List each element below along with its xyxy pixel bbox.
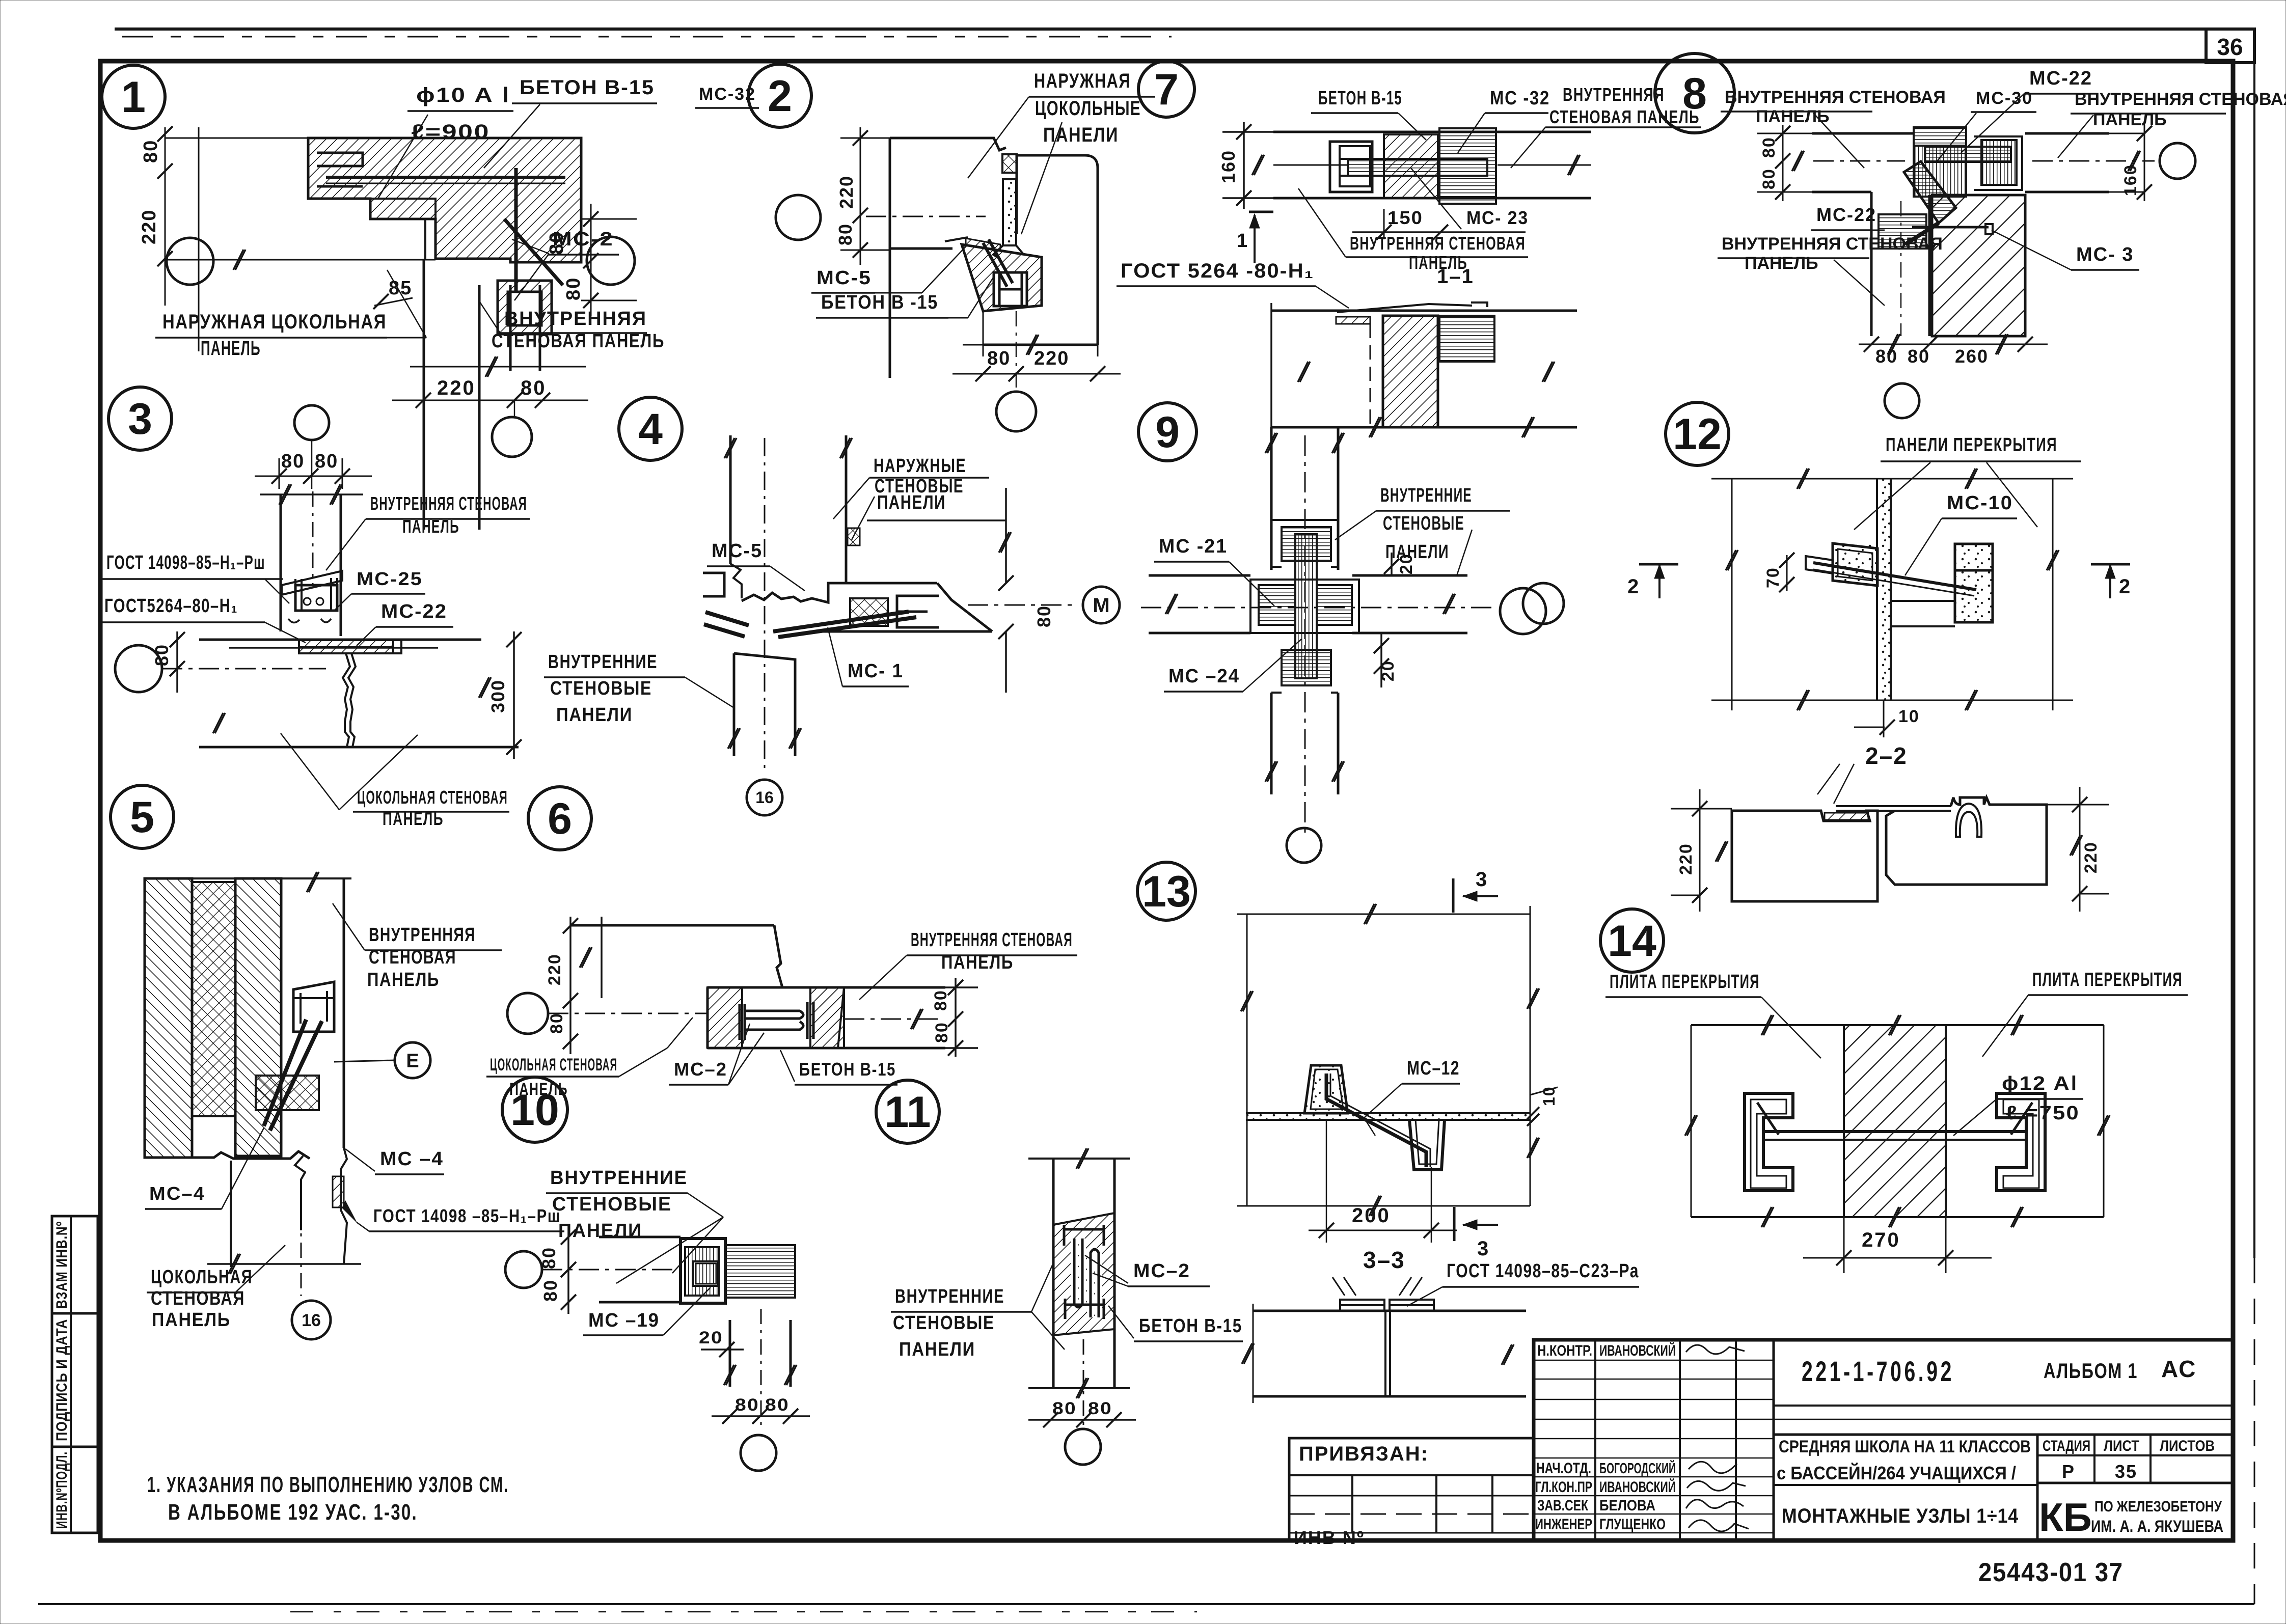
- svg-text:БОГОРОДСКИЙ: БОГОРОДСКИЙ: [1599, 1460, 1676, 1477]
- svg-text:ВНУТРЕННИЕ: ВНУТРЕННИЕ: [550, 1167, 688, 1189]
- detail 1: anchor pin vertical: [514, 168, 518, 318]
- svg-text:СТЕНОВЫЕ: СТЕНОВЫЕ: [1383, 513, 1464, 534]
- svg-text:ПАНЕЛЬ: ПАНЕЛЬ: [2093, 110, 2167, 129]
- detail 13: U channel: [1409, 1120, 1445, 1170]
- svg-text:ПРИВЯЗАН:: ПРИВЯЗАН:: [1299, 1443, 1429, 1465]
- svg-text:3–3: 3–3: [1363, 1247, 1405, 1273]
- detail 4: joint zigzag profile: [742, 583, 849, 602]
- detail 1: hatched floor slab: [308, 138, 581, 262]
- svg-text:ПАНЕЛЬ: ПАНЕЛЬ: [152, 1309, 231, 1331]
- svg-text:ЦОКОЛЬНАЯ СТЕНОВАЯ: ЦОКОЛЬНАЯ СТЕНОВАЯ: [357, 787, 508, 808]
- detail 8: MC-22 lower connector: [1879, 214, 1926, 249]
- detail 9: axes: [1141, 607, 1498, 609]
- svg-text:1: 1: [1237, 230, 1248, 252]
- detail 11 circle: [876, 1080, 939, 1143]
- svg-text:80: 80: [151, 644, 172, 666]
- detail 11: wall column: [1028, 1158, 1130, 1160]
- svg-text:80: 80: [1759, 136, 1779, 158]
- detail 7: section 1-1 recess plate: [1336, 317, 1370, 324]
- svg-text:МС- 23: МС- 23: [1466, 207, 1529, 228]
- detail 7: left dim 160: [1243, 122, 1245, 209]
- detail 6 circle: [528, 787, 591, 850]
- svg-text:МС –19: МС –19: [588, 1310, 660, 1331]
- svg-text:80: 80: [140, 140, 161, 163]
- svg-text:ϕ10 А Ⅰ: ϕ10 А Ⅰ: [416, 84, 510, 106]
- svg-text:МС–12: МС–12: [1407, 1058, 1460, 1079]
- svg-text:МС–2: МС–2: [674, 1059, 727, 1080]
- detail 13: dim 10 right: [1530, 1087, 1558, 1095]
- svg-text:ГОСТ 14098–85–С23–Ра: ГОСТ 14098–85–С23–Ра: [1447, 1260, 1639, 1282]
- detail 7: section 1-1 slab top: [1271, 310, 1577, 312]
- detail 12: section 2-2 thin plate: [1836, 805, 1951, 807]
- detail 8: MC-30 lined block top: [1914, 127, 1966, 146]
- detail 13: section mark 3 bottom: [1453, 1207, 1456, 1241]
- svg-text:В АЛЬБОМЕ 192 УАС. 1-30.: В АЛЬБОМЕ 192 УАС. 1-30.: [168, 1500, 418, 1525]
- svg-text:АС: АС: [2161, 1356, 2196, 1382]
- svg-text:БЕТОН В -15: БЕТОН В -15: [821, 292, 938, 313]
- svg-text:80: 80: [987, 348, 1011, 369]
- detail 13: floor slab: [1246, 1112, 1530, 1114]
- detail 4: bubble 16 below: [747, 780, 782, 815]
- svg-text:80: 80: [932, 1022, 951, 1043]
- detail 12: dim 70: [1786, 555, 1788, 591]
- detail 13: dim rectangle: [1237, 914, 1530, 915]
- detail 3: MC-22 plate hatched: [299, 640, 393, 647]
- page outer right border line: [2253, 29, 2255, 1258]
- svg-text:СТЕНОВЫЕ: СТЕНОВЫЕ: [550, 678, 652, 699]
- svg-text:1: 1: [121, 73, 146, 122]
- svg-text:5: 5: [130, 793, 154, 842]
- detail 14: central hatched joint: [1844, 1025, 1946, 1217]
- detail 12: section 2-2 left slab: [1732, 811, 1877, 901]
- detail 8: center vertical lined column: [1914, 146, 1966, 197]
- svg-text:ЛИСТ: ЛИСТ: [2104, 1438, 2139, 1454]
- detail 5: wall bottom jagged edge: [145, 1151, 310, 1159]
- detail 1: tie rod across slab: [326, 176, 565, 179]
- detail 4: insulation at wall top: [848, 528, 860, 545]
- detail 2: bottom dim 80/220: [983, 311, 984, 356]
- svg-text:БЕТОН В-15: БЕТОН В-15: [1318, 88, 1402, 109]
- detail 4 circle: [619, 397, 682, 460]
- detail 2: concrete B-15 block hatched: [962, 244, 1042, 311]
- detail 4: lower wall panel: [734, 653, 795, 756]
- page outer bottom border line: [38, 1603, 2254, 1605]
- svg-text:МС-22: МС-22: [1816, 204, 1876, 225]
- svg-text:ЛИСТОВ: ЛИСТОВ: [2160, 1438, 2215, 1454]
- detail 11: hatched joint region: [1053, 1213, 1114, 1335]
- svg-text:25443-01 37: 25443-01 37: [1978, 1558, 2124, 1587]
- detail 4: weld channel: [897, 596, 939, 627]
- detail 12: section 2-2 leader lines: [1817, 764, 1840, 794]
- detail 12: section marks 2: [1639, 563, 1678, 566]
- detail 12: dim frame: [1731, 479, 1733, 710]
- svg-text:Н.КОНТР.: Н.КОНТР.: [1537, 1342, 1592, 1359]
- detail 9: right wall: [1352, 574, 1467, 577]
- detail 7: section 1-1 bottom: [1271, 426, 1577, 429]
- svg-text:АЛЬБОМ 1: АЛЬБОМ 1: [2044, 1359, 2138, 1383]
- svg-text:7: 7: [1154, 65, 1179, 114]
- svg-text:ИНВ Nº: ИНВ Nº: [1294, 1527, 1365, 1548]
- detail 6: upper basement panel outline: [570, 924, 774, 927]
- svg-text:НАРУЖНЫЕ: НАРУЖНЫЕ: [874, 455, 966, 477]
- detail 8: right vertical-lined block: [1981, 140, 2017, 185]
- svg-text:12: 12: [1673, 410, 1722, 459]
- svg-text:220: 220: [2081, 841, 2101, 873]
- detail 10: bottom dim 80/80: [712, 1415, 810, 1417]
- svg-text:ПАНЕЛЬ: ПАНЕЛЬ: [402, 516, 459, 537]
- svg-text:80: 80: [735, 1395, 759, 1415]
- svg-text:300: 300: [487, 679, 508, 713]
- sheet number box 36: [2206, 29, 2254, 63]
- detail 9: center vertical lined strip: [1295, 534, 1317, 678]
- page outer top border line: [115, 27, 2254, 31]
- detail 1: diagonal tie: [504, 219, 563, 285]
- svg-text:220: 220: [437, 377, 476, 399]
- detail 4: sealant crosshatch: [850, 598, 888, 626]
- svg-text:ГЛУЩЕНКО: ГЛУЩЕНКО: [1599, 1516, 1666, 1533]
- detail 14 circle: [1600, 909, 1664, 972]
- svg-text:НАЧ.ОТД.: НАЧ.ОТД.: [1536, 1460, 1591, 1477]
- detail 6: slab band top/bottom: [707, 986, 945, 989]
- svg-text:80: 80: [547, 1012, 566, 1034]
- svg-text:ИМ. А. А. ЯКУШЕВА: ИМ. А. А. ЯКУШЕВА: [2091, 1517, 2223, 1535]
- svg-text:ПО ЖЕЛЕЗОБЕТОНУ: ПО ЖЕЛЕЗОБЕТОНУ: [2094, 1498, 2222, 1515]
- svg-text:МС–2: МС–2: [1133, 1260, 1190, 1282]
- detail 7: axis line: [1273, 164, 1348, 166]
- detail 8: big hatched block: [1932, 195, 2025, 336]
- svg-text:НАРУЖНАЯ: НАРУЖНАЯ: [1034, 70, 1131, 92]
- svg-text:220: 220: [545, 953, 564, 985]
- detail 12: section 2-2 dims 220: [1699, 789, 1701, 912]
- detail 1: outer basement wall panel: [423, 259, 425, 530]
- svg-text:ГОСТ 5264 -80-Н₁: ГОСТ 5264 -80-Н₁: [1121, 260, 1314, 282]
- detail 5: lower panel columns: [230, 1161, 232, 1267]
- svg-text:ПАНЕЛИ: ПАНЕЛИ: [899, 1339, 975, 1360]
- detail 6: MC-2 horizontal weld loops: [745, 1011, 803, 1030]
- detail 1: bottom axis bubble: [492, 417, 532, 457]
- svg-text:35: 35: [2115, 1461, 2137, 1482]
- svg-text:М: М: [1093, 594, 1109, 617]
- svg-text:СТАДИЯ: СТАДИЯ: [2043, 1438, 2090, 1454]
- detail 5: bubble 16: [292, 1301, 331, 1339]
- svg-text:МС-2: МС-2: [553, 229, 614, 250]
- svg-text:МС- 1: МС- 1: [848, 660, 904, 682]
- detail 12: dim 10 bottom: [1883, 700, 1885, 737]
- svg-text:ГОСТ5264–80–Н₁: ГОСТ5264–80–Н₁: [104, 595, 238, 617]
- detail 9: upper wall column: [1270, 427, 1273, 570]
- detail 4: outer wall panel above: [729, 435, 732, 564]
- svg-text:80: 80: [1033, 605, 1054, 627]
- svg-text:ГОСТ 14098–85–Н₁–Рш: ГОСТ 14098–85–Н₁–Рш: [106, 552, 265, 573]
- detail 1: bottom dim 220/80: [410, 366, 586, 368]
- svg-text:ϕ12 АⅠ: ϕ12 АⅠ: [2002, 1073, 2078, 1094]
- svg-text:80: 80: [1875, 346, 1898, 367]
- svg-text:ВНУТРЕННИЕ: ВНУТРЕННИЕ: [895, 1286, 1004, 1307]
- svg-text:ПАНЕЛИ ПЕРЕКРЫТИЯ: ПАНЕЛИ ПЕРЕКРЫТИЯ: [1886, 434, 2057, 456]
- detail 13: section 3-3 top line: [1253, 1310, 1526, 1312]
- svg-text:МС-30: МС-30: [1976, 89, 2033, 108]
- detail 8: lower-left wall panel: [1870, 192, 1873, 336]
- detail 11: bottom dim 80/80: [1028, 1419, 1136, 1421]
- detail 7 circle: [1138, 61, 1194, 117]
- svg-text:МС-5: МС-5: [712, 540, 763, 562]
- svg-text:Е: Е: [406, 1050, 419, 1071]
- svg-text:14: 14: [1608, 917, 1656, 966]
- detail 10: weld box МС-19: [681, 1238, 725, 1303]
- svg-text:ЦОКОЛЬНЫЕ: ЦОКОЛЬНЫЕ: [1035, 97, 1141, 120]
- svg-text:МС–4: МС–4: [149, 1183, 205, 1204]
- title block: main table frame: [1534, 1340, 2233, 1540]
- detail 1: inner wall panel: [509, 285, 512, 371]
- detail 10: wall strip: [599, 1236, 681, 1238]
- svg-text:220: 220: [836, 175, 857, 209]
- svg-text:ВНУТРЕННЯЯ: ВНУТРЕННЯЯ: [504, 308, 647, 329]
- detail 11: top anchor plate: [1064, 1225, 1104, 1246]
- svg-text:20: 20: [1378, 660, 1398, 681]
- svg-text:ВНУТРЕННИЕ: ВНУТРЕННИЕ: [1380, 485, 1472, 506]
- detail 4: wall left step profile: [730, 564, 742, 598]
- detail 12: wall strip speckled: [1876, 479, 1878, 700]
- detail 5: inner wall panel (white column): [343, 878, 345, 1148]
- svg-text:ИВАНОВСКИЙ: ИВАНОВСКИЙ: [1599, 1342, 1676, 1359]
- detail 1: leader to rod: [378, 115, 428, 199]
- svg-text:ВЗАМ ИНВ.Nº: ВЗАМ ИНВ.Nº: [53, 1221, 70, 1309]
- detail 3: floor double line: [199, 639, 481, 641]
- detail 9: right lined block: [1317, 585, 1352, 625]
- detail 12: section 2-2 MC-22 plate recess: [1825, 813, 1868, 820]
- svg-text:МС-25: МС-25: [357, 568, 423, 589]
- svg-text:СТЕНОВАЯ ПАНЕЛЬ: СТЕНОВАЯ ПАНЕЛЬ: [492, 331, 665, 352]
- detail 13 circle: [1137, 862, 1195, 920]
- detail 5: E bubble: [395, 1042, 430, 1078]
- detail 2: left dim 220/80: [860, 127, 861, 265]
- svg-text:МС –4: МС –4: [380, 1148, 444, 1170]
- detail 7: section 1-1 topping plates: [1337, 302, 1487, 312]
- detail 1: left dim 80/220: [165, 127, 166, 306]
- svg-text:9: 9: [1155, 408, 1180, 457]
- detail 11: centerline: [1083, 1339, 1084, 1426]
- detail 14: right anchor: [1997, 1093, 2045, 1191]
- detail 5: connector anchor box: [293, 982, 334, 1032]
- svg-text:4: 4: [638, 405, 663, 454]
- svg-text:2: 2: [1627, 575, 1640, 598]
- svg-text:150: 150: [1387, 207, 1423, 228]
- detail 4: corner angle with rods (left): [703, 573, 724, 596]
- svg-text:2: 2: [768, 72, 792, 121]
- detail 5: lower panel joint: [295, 1156, 305, 1230]
- svg-text:СТЕНОВАЯ ПАНЕЛЬ: СТЕНОВАЯ ПАНЕЛЬ: [1549, 106, 1700, 127]
- detail 8: MC-3 rod: [1912, 226, 1989, 229]
- svg-text:МС –24: МС –24: [1168, 666, 1240, 687]
- svg-text:2–2: 2–2: [1865, 742, 1908, 769]
- left stamp strip: ИНВ № ПОДЛ: [52, 1447, 98, 1533]
- svg-text:ВНУТРЕННЯЯ СТЕНОВАЯ: ВНУТРЕННЯЯ СТЕНОВАЯ: [1350, 233, 1526, 254]
- detail 8: bottom dim 80/80/260: [1859, 344, 2048, 345]
- detail 9 circle: [1138, 403, 1196, 461]
- detail 3: dim 300: [513, 631, 515, 759]
- svg-text:ИВАНОВСКИЙ: ИВАНОВСКИЙ: [1599, 1478, 1676, 1496]
- detail 13: MC-12 Z-tie: [1326, 1074, 1426, 1167]
- detail 3: top dim 80/80: [255, 476, 372, 477]
- svg-text:НАРУЖНАЯ ЦОКОЛЬНАЯ: НАРУЖНАЯ ЦОКОЛЬНАЯ: [162, 311, 387, 333]
- title block: ПРИВЯЗАН box: [1289, 1438, 1534, 1540]
- detail 2: axis bubble left: [776, 195, 821, 240]
- svg-text:ВНУТРЕННЯЯ СТЕНОВАЯ: ВНУТРЕННЯЯ СТЕНОВАЯ: [1722, 234, 1943, 254]
- detail 3: basement panel joint: [343, 653, 350, 747]
- detail 2: axis dash left: [866, 216, 986, 217]
- detail 13: upstand block: [1304, 1065, 1348, 1113]
- svg-text:ПЛИТА ПЕРЕКРЫТИЯ: ПЛИТА ПЕРЕКРЫТИЯ: [2032, 969, 2183, 990]
- detail 11: bottom anchor plate: [1065, 1299, 1104, 1319]
- detail 2: bottom centerline + bubble: [1016, 311, 1017, 391]
- svg-text:ПАНЕЛЬ: ПАНЕЛЬ: [941, 952, 1014, 973]
- svg-text:260: 260: [1955, 346, 1989, 367]
- detail 11: bottom bubble: [1065, 1429, 1101, 1465]
- detail 10: lower wall columns: [729, 1320, 731, 1387]
- svg-text:270: 270: [1862, 1229, 1900, 1251]
- svg-text:80: 80: [1759, 168, 1779, 189]
- svg-text:85: 85: [389, 278, 412, 299]
- detail 13: section 3-3 bottom line: [1253, 1395, 1526, 1398]
- svg-text:МС -21: МС -21: [1159, 536, 1228, 557]
- detail 2: MC-5 tie rod: [989, 239, 1013, 283]
- detail 12: axis bubble left: [1523, 583, 1564, 624]
- detail 6: right dims 80/80: [955, 978, 957, 1057]
- svg-text:ПАНЕЛЬ: ПАНЕЛЬ: [367, 969, 440, 990]
- svg-text:10: 10: [1540, 1086, 1558, 1106]
- svg-text:36: 36: [2217, 34, 2243, 60]
- title block: project number box: [1774, 1405, 2233, 1407]
- svg-text:с БАССЕЙН/264 УЧАЩИХСЯ /: с БАССЕЙН/264 УЧАЩИХСЯ /: [1777, 1462, 2016, 1483]
- title block: left columns: [1594, 1340, 1596, 1540]
- svg-text:220: 220: [1676, 843, 1696, 875]
- detail 5: insulation crosshatch layer: [192, 882, 235, 1116]
- svg-text:80: 80: [1908, 346, 1930, 367]
- svg-text:БЕТОН В-15: БЕТОН В-15: [520, 76, 655, 99]
- svg-text:3: 3: [1476, 868, 1488, 891]
- detail 7: hatched wall block: [1384, 134, 1438, 198]
- detail 12: floor lines: [1891, 600, 1955, 602]
- svg-text:ПЛИТА ПЕРЕКРЫТИЯ: ПЛИТА ПЕРЕКРЫТИЯ: [1610, 971, 1760, 993]
- svg-text:1. УКАЗАНИЯ ПО ВЫПОЛНЕНИЮ УЗ: 1. УКАЗАНИЯ ПО ВЫПОЛНЕНИЮ УЗЛОВ СМ.: [147, 1472, 509, 1497]
- svg-text:16: 16: [755, 788, 774, 807]
- detail 8 circle: [1655, 53, 1734, 133]
- detail 7: lined rod bar: [1348, 159, 1487, 176]
- detail 9: lower wall column: [1270, 693, 1273, 794]
- svg-text:МС -32: МС -32: [1490, 88, 1550, 109]
- detail 7: MC-32 lined block: [1439, 128, 1496, 204]
- svg-text:80: 80: [765, 1395, 790, 1415]
- svg-text:ВНУТРЕННЯЯ: ВНУТРЕННЯЯ: [369, 924, 476, 946]
- detail 5: sealant block: [256, 1076, 319, 1110]
- left stamp strip: ПОДПИСЬ И ДАТА: [52, 1313, 98, 1447]
- detail 9: left lined block: [1259, 585, 1295, 625]
- detail 3 circle: [108, 387, 172, 450]
- svg-text:ПАНЕЛИ: ПАНЕЛИ: [558, 1220, 642, 1242]
- svg-text:3: 3: [128, 395, 152, 444]
- svg-text:МС-22: МС-22: [2029, 68, 2092, 89]
- detail 2: right outer panel: [1017, 155, 1098, 345]
- svg-text:Р: Р: [2062, 1461, 2075, 1482]
- detail 10 circle: [502, 1077, 567, 1142]
- detail 14: tie rod: [1763, 1130, 2026, 1133]
- svg-text:МС-10: МС-10: [1947, 492, 2013, 514]
- detail 2: left outer basement panel: [890, 138, 1006, 150]
- detail 2: joint speckled strip: [1003, 179, 1016, 245]
- detail 8: top walls: [1812, 132, 1914, 135]
- svg-text:СТЕНОВАЯ: СТЕНОВАЯ: [369, 947, 456, 968]
- detail 6: left dims 220/80 + bubble: [507, 993, 548, 1034]
- svg-text:БЕЛОВА: БЕЛОВА: [1599, 1497, 1655, 1514]
- svg-text:2: 2: [2119, 575, 2131, 598]
- detail 9: left wall: [1149, 574, 1250, 577]
- detail 7: weld box: [1330, 142, 1372, 192]
- detail 9: block frames: [1250, 580, 1359, 633]
- svg-text:ВНУТРЕННИЕ: ВНУТРЕННИЕ: [548, 651, 658, 673]
- detail 3: weld unit at column base: [282, 571, 342, 595]
- detail 2: thin hatched plate: [966, 238, 1000, 251]
- detail 8: MC-22 lined bar: [1925, 147, 2011, 162]
- detail 1: axis bubble right: [587, 237, 635, 285]
- svg-text:МС-5: МС-5: [817, 267, 872, 289]
- detail 7: dim 150: [1352, 231, 1462, 233]
- detail 7: section 1-1 hatched wall: [1383, 316, 1438, 427]
- detail 2: joint sealant crosshatch: [1002, 154, 1017, 173]
- detail 5: outer wall hatched layer: [145, 878, 192, 1158]
- detail 13: section mark 3 top: [1452, 878, 1455, 913]
- detail 13: section 3-3 stem: [1384, 1311, 1386, 1396]
- svg-text:80: 80: [281, 451, 305, 472]
- svg-text:СТЕНОВЫЕ: СТЕНОВЫЕ: [893, 1312, 995, 1334]
- svg-text:БЕТОН В-15: БЕТОН В-15: [1139, 1315, 1242, 1337]
- svg-text:ПАНЕЛЬ: ПАНЕЛЬ: [1756, 107, 1830, 126]
- detail 1: embedded angle left: [317, 153, 363, 186]
- detail 3: inner wall panel columns: [280, 494, 282, 631]
- svg-text:80: 80: [563, 277, 584, 300]
- svg-text:КБ: КБ: [2039, 1495, 2092, 1539]
- svg-text:МОНТАЖНЫЕ УЗЛЫ 1÷14: МОНТАЖНЫЕ УЗЛЫ 1÷14: [1782, 1505, 2019, 1527]
- svg-text:8: 8: [1682, 69, 1707, 118]
- svg-text:10: 10: [510, 1086, 559, 1135]
- svg-text:20: 20: [699, 1328, 723, 1347]
- svg-text:10: 10: [1898, 707, 1920, 726]
- svg-text:ПАНЕЛИ: ПАНЕЛИ: [877, 492, 946, 513]
- detail 5: ГОСТ weld sliver: [333, 1176, 344, 1207]
- svg-text:БЕТОН В-15: БЕТОН В-15: [799, 1059, 896, 1080]
- detail 9: lower lined block MC-24: [1282, 650, 1331, 685]
- svg-text:13: 13: [1142, 867, 1191, 916]
- svg-text:ГОСТ 14098 –85–Н₁–Рш: ГОСТ 14098 –85–Н₁–Рш: [373, 1205, 561, 1226]
- detail 10: left dim 80/80: [567, 1225, 569, 1314]
- detail 8: bottom axis bubble: [1885, 383, 1919, 418]
- svg-text:СТЕНОВАЯ: СТЕНОВАЯ: [151, 1288, 245, 1309]
- svg-text:80: 80: [1052, 1399, 1077, 1418]
- svg-text:МС- 3: МС- 3: [2076, 244, 2134, 265]
- svg-text:СРЕДНЯЯ ШКОЛА НА 11 КЛАССОВ: СРЕДНЯЯ ШКОЛА НА 11 КЛАССОВ: [1779, 1437, 2031, 1456]
- svg-text:220: 220: [1034, 348, 1069, 369]
- svg-text:ПАНЕЛЬ: ПАНЕЛЬ: [201, 337, 261, 360]
- svg-text:80: 80: [315, 451, 338, 472]
- detail 11: MC-2 weld loops: [1074, 1238, 1099, 1317]
- svg-text:ПАНЕЛИ: ПАНЕЛИ: [1385, 541, 1449, 563]
- svg-text:ЦОКОЛЬНАЯ: ЦОКОЛЬНАЯ: [151, 1267, 253, 1288]
- detail 14: slab outline: [1691, 1024, 2104, 1026]
- left stamp strip: ВЗАМ ИНВ №: [52, 1216, 98, 1313]
- detail 1: axis bubble left: [167, 238, 213, 285]
- detail 12 circle: [1666, 402, 1729, 465]
- detail 5: МС-4 tie rods: [264, 1020, 306, 1126]
- svg-text:ВНУТРЕННЯЯ СТЕНОВАЯ: ВНУТРЕННЯЯ СТЕНОВАЯ: [2075, 90, 2286, 109]
